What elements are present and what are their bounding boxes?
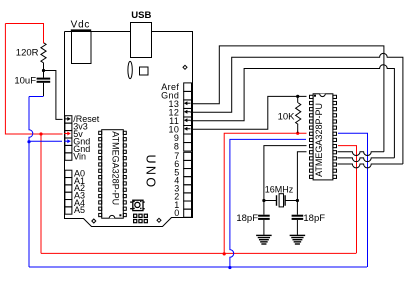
node junction crystal left xyxy=(262,199,265,202)
crystal X1 16MHz xyxy=(264,200,276,202)
node blue junction bottom rail xyxy=(228,266,231,269)
wire C3 to ground xyxy=(296,220,298,235)
wire blue from C1 bottom xyxy=(29,96,44,98)
wire blue bottom rail xyxy=(29,266,367,268)
Arduino UNO board outline xyxy=(65,32,193,227)
left header pin box A1 xyxy=(65,178,72,185)
left header pin box 5v xyxy=(65,131,72,138)
wire pin10 to U2 RESET xyxy=(191,96,307,129)
wire arrow into pin 11 xyxy=(185,119,191,121)
svg-text:8: 8 xyxy=(174,142,179,152)
mounting hole bottom-right xyxy=(157,218,161,222)
wire arrow into pin 13 xyxy=(185,102,191,104)
left header pin box Gnd xyxy=(65,145,72,152)
right header pin box Aref xyxy=(184,83,192,92)
right header pin box 9 xyxy=(184,134,192,143)
wire red right vertical to U2 right VCC xyxy=(338,146,357,254)
resistor R2 10K xyxy=(296,103,301,125)
svg-text:ATMEGA328P-PU: ATMEGA328P-PU xyxy=(314,103,324,177)
right header pin box 13 xyxy=(184,100,192,109)
wire pin13 to U2 SCK xyxy=(191,46,384,152)
wire red left vertical 5v xyxy=(5,24,62,135)
right header pin box 1 xyxy=(184,201,192,209)
right header pin box 4 xyxy=(184,177,192,185)
right header pin box 12 xyxy=(184,108,192,117)
wire U2 XTAL1 to crystal xyxy=(264,146,307,201)
left header pin box A4 xyxy=(65,200,72,207)
wire blue branch up to U2 GND with hop over red rail xyxy=(230,139,306,267)
wire red 5v to R1 top xyxy=(5,24,43,44)
wire pin11 to U2 MOSI with hop xyxy=(191,65,395,158)
wire arrow into pin 12 xyxy=(185,111,191,113)
wire U2 XTAL2 to crystal xyxy=(297,152,306,201)
op chip U1 ATMEGA328P-PU on Arduino xyxy=(102,130,124,219)
reset button S1 xyxy=(133,200,143,210)
mounting hole bottom-left xyxy=(92,219,96,223)
wire junction to /Reset pin xyxy=(44,71,63,120)
left header pin box A0 xyxy=(65,170,72,177)
svg-text:USB: USB xyxy=(131,10,151,21)
wire 10K top lead xyxy=(297,96,299,102)
wire red vertical to bottom rail xyxy=(40,134,42,253)
svg-text:Vdc: Vdc xyxy=(71,19,91,30)
wire blue right vertical to U2 right GND xyxy=(338,133,368,267)
node junction R1/C1 xyxy=(42,69,45,72)
svg-text:120R: 120R xyxy=(16,47,39,58)
node junction crystal right xyxy=(296,199,299,202)
node red junction 10K bottom xyxy=(296,132,299,135)
wire pin11 lower segment with hops xyxy=(338,158,395,162)
wire crystal right to C3 xyxy=(296,201,298,215)
wire pin12 to U2 MISO with hop xyxy=(191,53,403,164)
wire arrow red into 5v pin xyxy=(64,133,70,135)
left header pin box A3 xyxy=(65,192,72,199)
wire C2 to ground xyxy=(263,220,265,235)
left header pin box Gnd xyxy=(65,138,72,145)
svg-text:18pF: 18pF xyxy=(303,213,325,224)
ground left xyxy=(256,234,272,236)
wire 10K bottom lead xyxy=(297,124,299,132)
svg-text:A5: A5 xyxy=(74,205,85,215)
wire C1 top lead xyxy=(43,70,45,78)
wire arrow blue into Gnd xyxy=(64,140,70,142)
Vdc power jack xyxy=(72,32,92,64)
right header pin box 10 xyxy=(184,126,192,135)
node red junction at 5v branch xyxy=(39,132,42,135)
wire blue branch into Gnd pin xyxy=(29,140,62,142)
right header pin box 0 xyxy=(184,209,192,217)
mounting hole top-right xyxy=(183,65,187,69)
right header pin box 6 xyxy=(184,160,192,168)
left header pin box Vin xyxy=(65,153,72,160)
right header pin box 11 xyxy=(184,117,192,126)
capacitor C3 18pF xyxy=(292,215,304,217)
svg-text:UNO: UNO xyxy=(143,155,157,190)
svg-text:0: 0 xyxy=(174,208,179,218)
resistor R1 120R xyxy=(41,43,46,63)
left header pin box A5 xyxy=(65,207,72,214)
SMD component square xyxy=(140,67,149,75)
left header pin box A2 xyxy=(65,185,72,192)
wire blue left vertical with hop over red xyxy=(29,97,33,268)
right header pin box Gnd xyxy=(184,91,192,100)
left header pin box 3v3 xyxy=(65,123,72,130)
right header pin box 2 xyxy=(184,193,192,201)
ground right xyxy=(290,234,306,236)
wire pin12 lower segment with hops xyxy=(338,164,403,168)
node blue junction Gnd branch xyxy=(27,140,30,143)
svg-text:Vin: Vin xyxy=(73,151,86,161)
USB connector xyxy=(131,23,152,58)
op chip U2 ATMEGA328P-PU standalone xyxy=(313,94,333,180)
svg-text:ATMEGA328P-PU: ATMEGA328P-PU xyxy=(111,131,121,205)
left header pin box /Reset xyxy=(65,116,72,123)
wire arrow into /Reset xyxy=(64,118,70,120)
right header pin box 7 xyxy=(184,152,192,160)
svg-text:10K: 10K xyxy=(278,112,296,123)
capacitor C2 18pF xyxy=(258,215,270,217)
svg-text:16MHz: 16MHz xyxy=(265,185,294,195)
wire red bottom rail xyxy=(41,252,356,254)
wire arrow into pin 10 xyxy=(185,128,191,130)
wire crystal left to C2 xyxy=(263,201,265,215)
svg-text:18pF: 18pF xyxy=(236,213,258,224)
node red junction bottom rail xyxy=(223,252,226,255)
wire red branch up to U2 VCC xyxy=(224,133,306,254)
SMD crystal oval xyxy=(128,61,132,78)
ICSP header J1 xyxy=(134,214,137,217)
right header pin box 5 xyxy=(184,169,192,177)
node junction 10K top / U2 pin1 xyxy=(296,95,299,98)
svg-text:10uF: 10uF xyxy=(14,75,36,86)
right header pin box 3 xyxy=(184,185,192,193)
wire resistor R1 bottom lead xyxy=(43,63,45,70)
right header pin box 8 xyxy=(184,143,192,152)
wire C1 bottom lead xyxy=(43,83,45,96)
capacitor C1 10uF xyxy=(37,78,51,80)
wire pin13 lower segment with hops over blue/red xyxy=(338,152,384,156)
